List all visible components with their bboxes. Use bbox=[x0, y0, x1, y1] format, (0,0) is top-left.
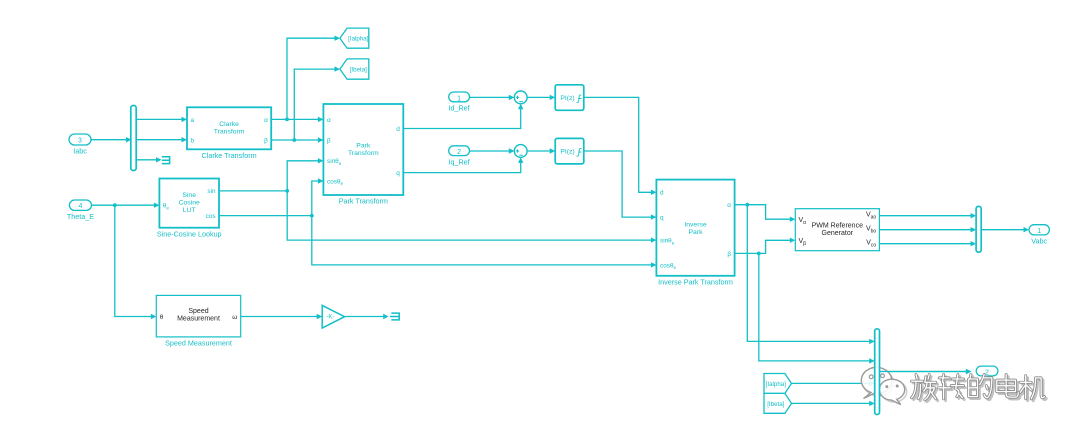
terminator 1 bbox=[162, 157, 170, 164]
svg-text:Sine-Cosine Lookup: Sine-Cosine Lookup bbox=[157, 229, 222, 238]
svg-text:[Ibeta]: [Ibeta] bbox=[350, 66, 367, 73]
wire Vbeta branch down to mux2 bbox=[759, 253, 875, 363]
Inverse Park block bbox=[656, 180, 734, 287]
outport 2 bbox=[976, 366, 998, 376]
wire cos junction to Inverse Park cos input bbox=[312, 216, 657, 268]
wire PI1 to Inverse Park d bbox=[584, 97, 657, 195]
svg-text:Generator: Generator bbox=[822, 230, 854, 237]
svg-text:-K-: -K- bbox=[326, 313, 334, 320]
wire PI2 to Inverse Park q bbox=[584, 151, 657, 220]
svg-text:Inverse Park Transform: Inverse Park Transform bbox=[658, 277, 733, 286]
wire demux to Clarke a bbox=[136, 117, 187, 122]
svg-text:Iabc: Iabc bbox=[73, 147, 87, 156]
svg-text:Theta_E: Theta_E bbox=[67, 212, 94, 221]
svg-text:Vabc: Vabc bbox=[1031, 237, 1047, 246]
svg-text:Speed Measurement: Speed Measurement bbox=[165, 338, 232, 347]
wire PWM Vco to mux1 bbox=[879, 241, 976, 246]
wire Clarke alpha to Park alpha bbox=[271, 117, 323, 122]
mux 2 bbox=[875, 329, 880, 415]
wire Inverse Park alpha to PWM Valpha bbox=[735, 203, 796, 222]
svg-text:β: β bbox=[727, 251, 731, 258]
wire mux1 to Vabc outport bbox=[981, 227, 1029, 232]
svg-text:[Ibeta]: [Ibeta] bbox=[767, 401, 784, 408]
demux 1 bbox=[131, 106, 136, 171]
watermark text xuanzhuan de dianji bbox=[912, 375, 1047, 402]
svg-text:α: α bbox=[264, 117, 268, 124]
svg-text:α: α bbox=[727, 202, 731, 209]
svg-text:Clarke Transform: Clarke Transform bbox=[202, 151, 257, 160]
svg-text:d: d bbox=[660, 190, 664, 197]
PI controller 2 bbox=[555, 138, 584, 164]
svg-text:α: α bbox=[327, 117, 331, 124]
svg-text:Transform: Transform bbox=[348, 150, 379, 157]
svg-text:Sine: Sine bbox=[182, 192, 196, 199]
svg-text:[Ialpha]: [Ialpha] bbox=[766, 381, 787, 388]
mux 1 bbox=[976, 206, 981, 252]
svg-text:[Ialpha]: [Ialpha] bbox=[348, 36, 369, 43]
Sine Cosine LUT block bbox=[157, 179, 222, 239]
svg-text:β: β bbox=[264, 137, 268, 144]
goto tag Ibeta bbox=[340, 59, 369, 79]
sum junction 1 bbox=[514, 91, 527, 104]
wire mux2 to outport 2 bbox=[880, 369, 972, 374]
wire Clarke beta to Park beta bbox=[271, 137, 323, 142]
wire Ibeta from-tag to mux2 bbox=[792, 401, 875, 406]
svg-text:LUT: LUT bbox=[183, 207, 196, 214]
svg-text:ω: ω bbox=[232, 314, 237, 321]
svg-text:θ: θ bbox=[160, 314, 164, 321]
svg-text:b: b bbox=[191, 137, 195, 144]
svg-text:4: 4 bbox=[78, 203, 82, 210]
svg-text:Transform: Transform bbox=[214, 129, 245, 136]
wire PWM Vbo to mux1 bbox=[879, 227, 976, 232]
wire Park q feedback to sum2 bbox=[403, 157, 523, 172]
svg-text:cos: cos bbox=[206, 213, 216, 220]
svg-text:q: q bbox=[660, 215, 664, 222]
svg-text:a: a bbox=[191, 117, 195, 124]
wire Iq_Ref to sum2 bbox=[470, 148, 515, 153]
wire demux to terminator bbox=[136, 157, 161, 162]
PWM Reference Generator block bbox=[795, 209, 879, 251]
svg-text:Iq_Ref: Iq_Ref bbox=[449, 157, 470, 166]
svg-text:Inverse: Inverse bbox=[684, 221, 707, 228]
wire branch to Ialpha goto bbox=[287, 36, 340, 120]
Clarke Transform block bbox=[187, 107, 271, 160]
inport 4 Theta_E bbox=[67, 200, 94, 221]
wire Ialpha from-tag to mux2 bbox=[792, 381, 875, 386]
svg-text:3: 3 bbox=[78, 137, 82, 144]
goto tag Ialpha bbox=[340, 28, 369, 48]
Park Transform block bbox=[323, 104, 403, 206]
svg-text:Park Transform: Park Transform bbox=[339, 197, 388, 206]
wire sin junction to Inverse Park sin input bbox=[287, 191, 656, 243]
svg-text:1: 1 bbox=[457, 95, 461, 102]
svg-text:PWM Reference: PWM Reference bbox=[812, 222, 863, 229]
wire sum2 to PI2 bbox=[527, 148, 555, 153]
wire gain to terminator bbox=[345, 314, 389, 319]
svg-text:q: q bbox=[396, 170, 400, 177]
wire Speed Measurement to gain bbox=[241, 314, 323, 319]
svg-text:2: 2 bbox=[457, 149, 461, 156]
svg-text:Clarke: Clarke bbox=[219, 121, 239, 128]
svg-text:Cosine: Cosine bbox=[179, 200, 200, 207]
Speed Measurement block bbox=[156, 295, 240, 347]
wire sin junction to Park sin input bbox=[287, 158, 323, 191]
wire Valpha branch down to mux2 bbox=[747, 205, 874, 344]
svg-text:Park: Park bbox=[356, 143, 371, 150]
svg-text:Park: Park bbox=[689, 229, 704, 236]
svg-text:PI(z): PI(z) bbox=[560, 95, 574, 102]
svg-text:Measurement: Measurement bbox=[177, 316, 220, 323]
svg-text:β: β bbox=[327, 137, 331, 144]
wire Theta_E branch to Speed Measurement bbox=[115, 205, 157, 319]
wire Inverse Park beta to PWM Vbeta bbox=[735, 238, 796, 256]
terminator 2 bbox=[390, 313, 399, 320]
wire branch to Ibeta goto bbox=[294, 66, 340, 140]
inport 3 Iabc bbox=[69, 134, 91, 156]
svg-text:Speed: Speed bbox=[188, 308, 208, 315]
wire mux2 to outport 2 over watermark bbox=[880, 369, 972, 374]
svg-text:Id_Ref: Id_Ref bbox=[449, 104, 470, 113]
svg-text:d: d bbox=[396, 126, 400, 133]
gain -K- bbox=[322, 305, 344, 328]
wire Iabc to demux bbox=[91, 137, 132, 142]
watermark wechat logo bbox=[861, 367, 906, 404]
svg-text:sin: sin bbox=[207, 188, 216, 195]
inport 2 Iq_Ref bbox=[449, 146, 470, 167]
wire Id_Ref to sum1 bbox=[470, 95, 515, 100]
sum junction 2 bbox=[514, 145, 527, 158]
outport 1 Vabc bbox=[1029, 225, 1049, 246]
wire PWM Vao to mux1 bbox=[879, 213, 976, 218]
from tag Ibeta bbox=[764, 393, 792, 413]
from tag Ialpha bbox=[764, 374, 792, 394]
inport 1 Id_Ref bbox=[449, 92, 470, 113]
wire Park d feedback to sum1 bbox=[403, 104, 523, 129]
PI controller 1 bbox=[555, 85, 584, 111]
wire Theta_E to LUT bbox=[92, 203, 160, 208]
svg-text:1: 1 bbox=[1037, 228, 1041, 235]
wire LUT sin to junction bbox=[219, 189, 289, 193]
svg-text:PI(z): PI(z) bbox=[560, 149, 574, 156]
wire demux to Clarke b bbox=[136, 137, 187, 142]
wire sum1 to PI1 bbox=[527, 95, 555, 100]
wire cos junction to Park cos input bbox=[312, 178, 324, 215]
wire LUT cos to junction bbox=[219, 214, 314, 218]
